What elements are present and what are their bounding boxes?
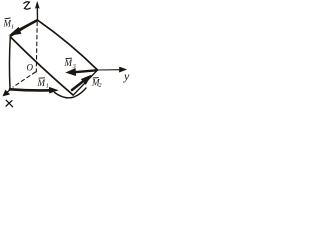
label M1 bottom — [37, 78, 49, 90]
label z — [24, 2, 30, 9]
moment M1 bottom arrow — [10, 87, 58, 93]
edge V-R — [73, 70, 97, 95]
label M1 top — [3, 18, 15, 31]
moment M1 top arrow — [10, 21, 37, 35]
moment M3 arrow — [67, 69, 97, 76]
svg-text:M: M — [37, 78, 46, 88]
label M2 — [91, 77, 102, 89]
svg-text:2: 2 — [99, 83, 102, 89]
svg-text:3: 3 — [72, 64, 76, 70]
label x — [6, 100, 13, 107]
x axis hidden dashed — [13, 72, 36, 87]
svg-text:M: M — [64, 58, 73, 68]
y axis — [98, 67, 127, 72]
diagonal B-V — [11, 38, 73, 96]
svg-text:O: O — [27, 62, 34, 72]
z axis hidden dashed — [35, 22, 38, 72]
svg-text:1: 1 — [46, 83, 49, 89]
svg-text:1: 1 — [11, 25, 14, 31]
z axis — [35, 2, 39, 20]
moment M2 arrow — [72, 76, 91, 91]
diagonal A-R — [38, 21, 97, 70]
label M3 — [64, 58, 76, 70]
edge B-C left vertical — [8, 37, 11, 89]
bottom curved edge swoosh — [55, 88, 87, 98]
edge A-B — [11, 20, 38, 36]
x axis — [3, 89, 11, 96]
svg-text:y: y — [123, 69, 130, 83]
